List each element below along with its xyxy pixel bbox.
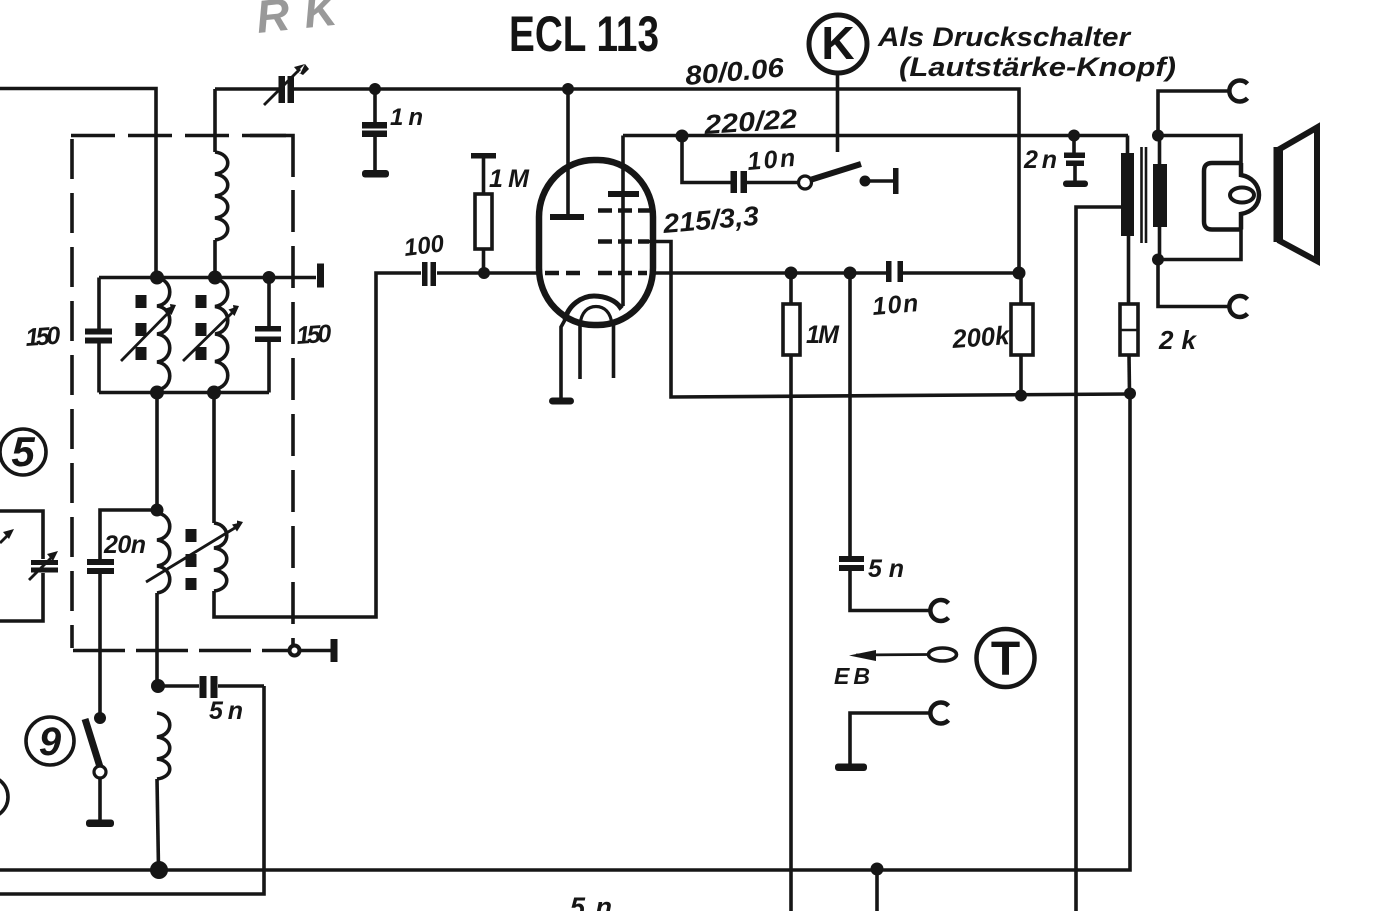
wire osc coil bottom to grid riser xyxy=(214,273,421,617)
resistor 1M AF stub top xyxy=(789,273,793,304)
svg-text:ECL 113: ECL 113 xyxy=(509,6,659,62)
coil L3 IF right (x=215) xyxy=(214,279,228,392)
svg-text:(Lautstärke-Knopf): (Lautstärke-Knopf) xyxy=(899,52,1176,82)
capacitor 2n end bar xyxy=(1063,181,1088,188)
speaker voice coil oval xyxy=(1230,188,1254,203)
shield ground wire xyxy=(300,649,331,653)
wire screen-grid tap down and across xyxy=(648,242,1130,398)
resistor 2k divider xyxy=(1120,329,1138,332)
resistor 200k body xyxy=(1011,304,1033,355)
transformer primary winding xyxy=(1121,153,1134,236)
shield ground terminal bar xyxy=(331,639,338,662)
resistor 2k stub bottom xyxy=(1127,355,1131,394)
tube pentode anode lead up xyxy=(621,136,625,192)
shield box dashed bottom xyxy=(73,649,288,653)
capacitor 1n stub xyxy=(373,89,377,122)
connector hook speaker bottom xyxy=(1229,296,1247,317)
shield ground link circle xyxy=(290,646,300,656)
switch wire to pivot xyxy=(747,181,798,185)
capacitor 5n AF plates xyxy=(839,556,864,562)
wire 20n top link xyxy=(100,510,157,560)
junction dots left section xyxy=(150,271,276,880)
connector hook speaker top xyxy=(1229,81,1247,102)
wire secondary top to hook xyxy=(1158,91,1229,136)
tube cathode arc xyxy=(565,296,622,320)
core slug dashes left column xyxy=(136,295,147,360)
wire secondary bottom to voice coil xyxy=(1158,230,1241,260)
wire 220/22 primary feed xyxy=(623,134,1128,138)
antenna trimmer plates xyxy=(31,560,58,565)
wire tuned-circuit bottom bus y=392 xyxy=(99,391,269,395)
switch 9 arm xyxy=(85,719,100,767)
svg-text:T: T xyxy=(991,633,1020,686)
capacitor 1n plates xyxy=(362,122,387,129)
resistor 2k body xyxy=(1120,304,1138,355)
switch 10n branch stub xyxy=(682,136,731,183)
switch 9 ground bar xyxy=(86,820,114,828)
transformer secondary winding xyxy=(1153,164,1167,227)
resistor 1M grid-leak stub bottom xyxy=(482,249,486,273)
capacitor 100 plates xyxy=(422,262,428,286)
coil L2 IF left (x=157) xyxy=(157,278,170,390)
wire 5n-left to return xyxy=(218,684,264,688)
shield box dashed right with corner xyxy=(250,136,293,178)
core slug dashes mid column xyxy=(196,295,207,360)
circle tag cut at edge xyxy=(0,776,8,818)
speaker cone horn xyxy=(1278,128,1317,262)
wire coil B to 5n node xyxy=(155,593,159,686)
capacitor C-150 left stub bottom xyxy=(97,343,101,393)
transformer secondary top stub xyxy=(1158,136,1162,165)
shield box dashed top xyxy=(71,134,293,138)
capacitor 1n end bar xyxy=(362,170,389,178)
tube grid dashes row3 xyxy=(545,271,647,276)
transformer primary tap wire xyxy=(1076,207,1121,911)
transformer secondary bottom stub xyxy=(1158,227,1162,260)
coil L4 osc lower-left (x=157) xyxy=(157,513,170,593)
wire grid line from 100 cap to tube xyxy=(437,271,540,275)
tag K actuating link xyxy=(836,73,840,152)
switch 9 stub to ground xyxy=(98,778,102,820)
connector hook upper EB xyxy=(930,600,948,621)
indicator EB lamp oval xyxy=(929,648,957,661)
switch contact wire xyxy=(870,179,893,183)
resistor 1M AF body xyxy=(783,304,800,355)
capacitor 5n AF to hook xyxy=(850,571,929,611)
wire segment left of trimmer RK xyxy=(215,87,279,91)
capacitor 2n stub xyxy=(1072,136,1076,154)
capacitor 5n AF stub xyxy=(848,273,852,556)
tube ECL113 envelope xyxy=(539,160,653,325)
capacitor 2n stub lower xyxy=(1073,166,1077,181)
wire AF output line tube to 200k node xyxy=(650,271,886,275)
tube cathode riser xyxy=(621,197,625,306)
antenna trimmer arrow xyxy=(29,556,53,580)
core slug dashes lower column xyxy=(186,529,197,590)
capacitor 2n plates xyxy=(1064,153,1085,159)
svg-text:100: 100 xyxy=(402,230,446,262)
connector hook lower EB xyxy=(930,703,948,724)
wire AF output line right part xyxy=(903,271,1019,275)
svg-text:200k: 200k xyxy=(950,320,1011,354)
wire second bottom return (5n net) xyxy=(0,686,264,894)
tube grid dashes row1 xyxy=(598,208,650,213)
svg-text:K: K xyxy=(821,17,854,69)
svg-text:5: 5 xyxy=(11,428,35,475)
wire 20n bottom to switch 9 xyxy=(98,574,102,714)
capacitor 1n stub lower xyxy=(373,137,377,170)
coil L6 antenna coupling (x=157) xyxy=(157,713,170,779)
svg-text:10n: 10n xyxy=(871,289,919,321)
indicator EB arrowhead xyxy=(849,650,876,661)
wire segment trimmer to right corner, down to AF node xyxy=(293,89,1019,273)
resistor 1M grid-leak stub top xyxy=(482,158,486,194)
capacitor C-150 right stub bottom xyxy=(267,342,271,393)
resistor 2k stub top xyxy=(1127,236,1131,304)
junction dots right xyxy=(1068,130,1164,400)
adjust arrow L4/L5 xyxy=(146,526,238,582)
junction dots center xyxy=(369,83,1027,876)
circle tag K xyxy=(809,15,867,73)
svg-text:1M: 1M xyxy=(489,165,530,193)
wire stub below junction to edge xyxy=(875,869,879,911)
speaker driver right side with bump xyxy=(1241,163,1259,230)
capacitor 20n plates xyxy=(87,559,114,565)
capacitor C-150 right plates xyxy=(255,326,281,332)
capacitor 10n AF plates xyxy=(886,261,892,282)
tube cathode leg to chassis xyxy=(561,318,566,398)
switch contact dot xyxy=(860,176,871,187)
transformer primary top feed xyxy=(1126,136,1130,154)
capacitor 5n-left plates xyxy=(200,676,207,698)
capacitor C-150 left stub top xyxy=(97,278,101,331)
svg-text:20n: 20n xyxy=(103,531,146,559)
resistor 200k stub top xyxy=(1019,273,1023,304)
circle tag 5 xyxy=(0,429,46,475)
switch pivot circle xyxy=(799,176,812,189)
capacitor C-150 right stub top xyxy=(267,278,271,328)
wire top-left horizontal (antenna net) xyxy=(0,89,156,278)
antenna box inner arrow xyxy=(0,533,10,543)
trimmer RK arrow xyxy=(264,69,300,105)
shield box dashed left xyxy=(70,139,74,648)
capacitor 10n switch plates xyxy=(731,171,738,193)
resistor 1M grid-leak body xyxy=(475,194,492,249)
wire secondary top to voice coil xyxy=(1158,136,1241,164)
adjust arrow L2 xyxy=(121,309,172,361)
terminal bar top bus xyxy=(317,264,324,288)
wire bottom chassis bus xyxy=(0,394,1130,870)
coil L5 osc lower-right (x=214) xyxy=(214,523,227,591)
svg-text:10n: 10n xyxy=(746,144,796,176)
tube grid dashes row2 xyxy=(598,239,649,244)
switch 9 contact dot xyxy=(94,712,106,724)
svg-text:2 k: 2 k xyxy=(1158,325,1198,355)
wire 1M bottom return to edge xyxy=(789,355,793,911)
tube heater pin right xyxy=(612,325,616,378)
ground bar EB branch xyxy=(835,764,867,772)
capacitor C-150 left plates xyxy=(85,329,112,335)
wire top main B+ 80/0.06 run xyxy=(213,89,217,152)
tube triode anode plate xyxy=(550,214,584,220)
circle tag T xyxy=(977,629,1035,687)
wire 5n-left link xyxy=(158,684,199,688)
tube pentode anode plate xyxy=(608,191,639,197)
speaker driver pot xyxy=(1204,163,1241,230)
wire coil link middle xyxy=(155,390,159,513)
circle tag 9 xyxy=(26,717,74,765)
coil L1 IF primary (top, x=215) xyxy=(215,152,228,240)
tube cathode ground bar xyxy=(549,398,574,405)
tube heater pin left xyxy=(578,325,582,379)
svg-text:1M: 1M xyxy=(806,321,840,349)
switch 9 pivot xyxy=(94,766,106,778)
wire T1 coil to junction xyxy=(213,240,217,278)
switch arm xyxy=(810,164,861,180)
adjust arrow L3 xyxy=(183,310,235,361)
switch terminal bar xyxy=(893,168,899,194)
svg-text:150: 150 xyxy=(295,320,332,350)
wire osc coil chain down xyxy=(212,393,216,524)
resistor 1M grid-leak terminal bar xyxy=(471,153,496,159)
antenna box xyxy=(0,511,43,559)
svg-text:9: 9 xyxy=(39,720,62,764)
tube heater arc xyxy=(580,307,612,326)
svg-text:150: 150 xyxy=(24,322,61,352)
trimmer RK plates xyxy=(279,76,286,103)
wire tuned-circuit top bus y=277 xyxy=(99,276,316,280)
tube triode anode lead to top wire xyxy=(566,89,570,214)
indicator EB arrow shaft xyxy=(856,653,929,656)
svg-text:Als Druckschalter: Als Druckschalter xyxy=(877,22,1132,52)
speaker cone bar xyxy=(1274,147,1284,242)
transformer core lines xyxy=(1140,147,1143,243)
wire coil C to chassis bus xyxy=(157,779,159,868)
wire lower hook to ground xyxy=(850,713,929,764)
resistor 200k stub bottom xyxy=(1019,355,1023,396)
wire secondary bottom to hook xyxy=(1158,260,1229,307)
